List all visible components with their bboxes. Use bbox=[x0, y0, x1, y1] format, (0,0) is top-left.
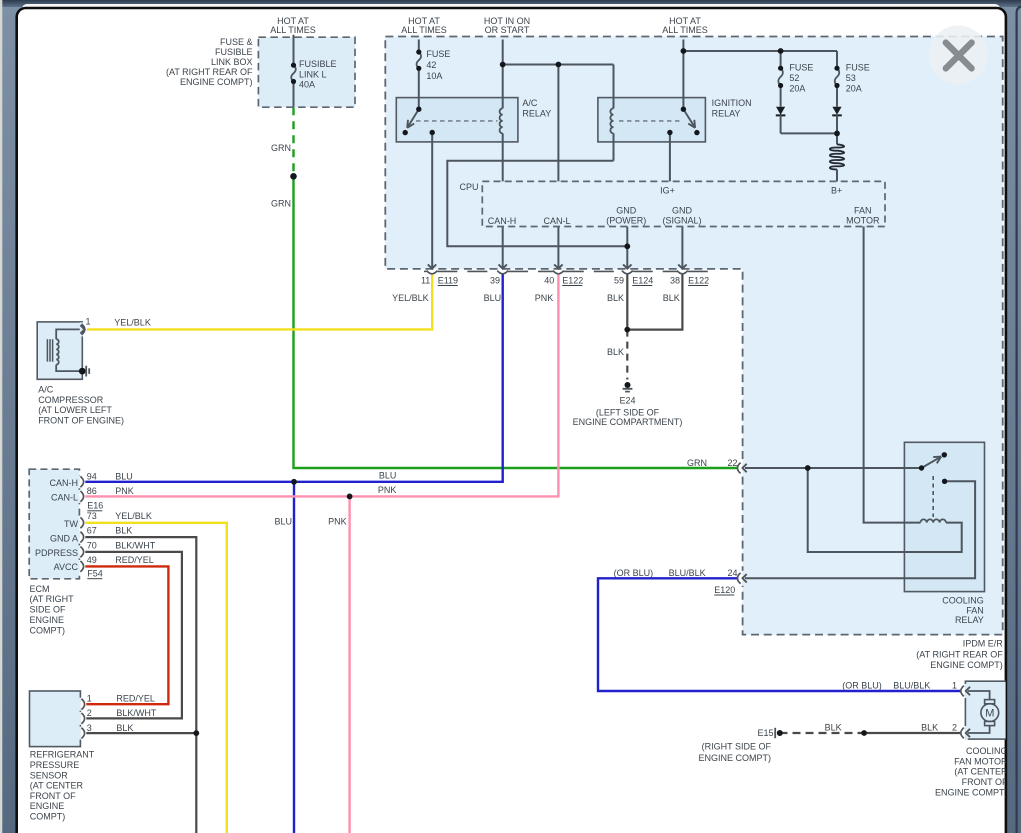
svg-text:10A: 10A bbox=[426, 71, 442, 81]
svg-text:CPU: CPU bbox=[459, 182, 478, 192]
svg-text:49: 49 bbox=[87, 555, 97, 565]
svg-text:(POWER): (POWER) bbox=[606, 216, 646, 226]
svg-text:40: 40 bbox=[544, 275, 554, 285]
svg-text:M: M bbox=[985, 708, 994, 720]
svg-text:22: 22 bbox=[727, 458, 737, 468]
svg-text:3: 3 bbox=[87, 723, 92, 733]
svg-text:COOLING: COOLING bbox=[942, 596, 984, 606]
svg-text:IGNITION: IGNITION bbox=[712, 98, 752, 108]
svg-text:BLK: BLK bbox=[115, 526, 132, 536]
svg-text:40A: 40A bbox=[299, 80, 315, 90]
svg-text:E16: E16 bbox=[87, 501, 103, 511]
svg-text:BLK: BLK bbox=[116, 723, 133, 733]
svg-text:GND A: GND A bbox=[50, 534, 78, 544]
svg-text:PDPRESS: PDPRESS bbox=[35, 548, 78, 558]
svg-text:RELAY: RELAY bbox=[955, 615, 984, 625]
svg-text:GND: GND bbox=[616, 205, 637, 215]
svg-text:E15: E15 bbox=[757, 728, 773, 738]
svg-text:IG+: IG+ bbox=[660, 185, 675, 195]
svg-text:PNK: PNK bbox=[535, 293, 554, 303]
svg-text:GRN: GRN bbox=[271, 143, 291, 153]
svg-text:1: 1 bbox=[87, 694, 92, 704]
svg-text:CAN-L: CAN-L bbox=[51, 493, 78, 503]
svg-text:MOTOR: MOTOR bbox=[846, 216, 880, 226]
svg-text:SENSOR: SENSOR bbox=[30, 770, 69, 780]
svg-text:E119: E119 bbox=[438, 275, 458, 285]
svg-text:SIDE OF: SIDE OF bbox=[30, 605, 67, 615]
svg-text:1: 1 bbox=[85, 316, 90, 326]
svg-text:20A: 20A bbox=[846, 83, 862, 93]
svg-text:ENGINE COMPT): ENGINE COMPT) bbox=[935, 788, 1008, 798]
svg-text:E120: E120 bbox=[714, 585, 735, 595]
svg-text:AVCC: AVCC bbox=[54, 562, 79, 572]
svg-text:GND: GND bbox=[672, 205, 693, 215]
svg-text:PNK: PNK bbox=[328, 516, 347, 526]
svg-text:FUSIBLE: FUSIBLE bbox=[215, 47, 253, 57]
svg-text:52: 52 bbox=[789, 73, 799, 83]
svg-text:IPDM E/R: IPDM E/R bbox=[963, 639, 1004, 649]
svg-text:2: 2 bbox=[87, 708, 92, 718]
svg-text:(RIGHT SIDE OF: (RIGHT SIDE OF bbox=[702, 741, 772, 751]
svg-text:OR START: OR START bbox=[485, 25, 530, 35]
svg-text:BLK: BLK bbox=[663, 293, 680, 303]
svg-text:53: 53 bbox=[846, 73, 856, 83]
svg-text:(AT LOWER LEFT: (AT LOWER LEFT bbox=[38, 405, 112, 415]
svg-text:20A: 20A bbox=[789, 83, 805, 93]
svg-text:A/C: A/C bbox=[522, 98, 538, 108]
svg-text:(SIGNAL): (SIGNAL) bbox=[662, 216, 701, 226]
svg-text:ALL TIMES: ALL TIMES bbox=[401, 25, 447, 35]
svg-text:FRONT OF: FRONT OF bbox=[30, 791, 76, 801]
svg-text:FRONT OF ENGINE): FRONT OF ENGINE) bbox=[38, 416, 124, 426]
svg-text:A/C: A/C bbox=[38, 385, 54, 395]
svg-text:ENGINE COMPT): ENGINE COMPT) bbox=[180, 77, 253, 87]
svg-text:TW: TW bbox=[64, 519, 78, 529]
svg-text:(OR BLU): (OR BLU) bbox=[614, 568, 654, 578]
svg-text:FUSE: FUSE bbox=[846, 63, 870, 73]
svg-text:59: 59 bbox=[614, 275, 624, 285]
svg-text:E122: E122 bbox=[688, 275, 709, 285]
svg-text:FUSE: FUSE bbox=[789, 63, 813, 73]
svg-text:2: 2 bbox=[952, 723, 957, 733]
svg-text:COMPT): COMPT) bbox=[30, 812, 66, 822]
svg-text:(AT RIGHT REAR OF: (AT RIGHT REAR OF bbox=[916, 649, 1003, 659]
svg-text:ENGINE COMPT): ENGINE COMPT) bbox=[930, 660, 1003, 670]
svg-text:FUSE &: FUSE & bbox=[220, 37, 253, 47]
svg-text:REFRIGERANT: REFRIGERANT bbox=[30, 750, 95, 760]
svg-text:GRN: GRN bbox=[271, 198, 291, 208]
svg-text:E24: E24 bbox=[619, 396, 635, 406]
svg-text:67: 67 bbox=[87, 526, 97, 536]
svg-text:BLU: BLU bbox=[379, 471, 397, 481]
svg-text:COMPT): COMPT) bbox=[30, 625, 66, 635]
svg-text:CAN-L: CAN-L bbox=[543, 216, 570, 226]
svg-text:BLK/WHT: BLK/WHT bbox=[116, 708, 157, 718]
svg-text:CAN-H: CAN-H bbox=[50, 478, 79, 488]
svg-text:BLU: BLU bbox=[274, 516, 292, 526]
svg-text:ENGINE COMPARTMENT): ENGINE COMPARTMENT) bbox=[573, 417, 683, 427]
svg-text:BLU/BLK: BLU/BLK bbox=[893, 681, 930, 691]
svg-text:LINK BOX: LINK BOX bbox=[211, 57, 253, 67]
svg-text:PNK: PNK bbox=[378, 485, 397, 495]
svg-text:LINK L: LINK L bbox=[299, 69, 327, 79]
svg-text:BLU/BLK: BLU/BLK bbox=[669, 568, 706, 578]
svg-text:42: 42 bbox=[426, 60, 436, 70]
svg-text:GRN: GRN bbox=[687, 458, 707, 468]
svg-text:70: 70 bbox=[87, 540, 97, 550]
svg-text:RELAY: RELAY bbox=[522, 109, 551, 119]
svg-text:ECM: ECM bbox=[30, 584, 50, 594]
svg-text:FAN MOTOR: FAN MOTOR bbox=[954, 756, 1008, 766]
svg-text:24: 24 bbox=[727, 568, 737, 578]
svg-text:11: 11 bbox=[421, 275, 430, 285]
svg-text:39: 39 bbox=[490, 275, 500, 285]
svg-text:BLU: BLU bbox=[484, 293, 502, 303]
svg-text:ENGINE COMPT): ENGINE COMPT) bbox=[698, 753, 771, 763]
svg-text:RED/YEL: RED/YEL bbox=[115, 555, 154, 565]
svg-text:BLK: BLK bbox=[825, 723, 842, 733]
svg-text:YEL/BLK: YEL/BLK bbox=[115, 511, 152, 521]
svg-text:FAN: FAN bbox=[854, 205, 872, 215]
svg-text:COMPRESSOR: COMPRESSOR bbox=[38, 395, 104, 405]
svg-text:(AT RIGHT REAR OF: (AT RIGHT REAR OF bbox=[166, 67, 253, 77]
svg-text:FRONT OF: FRONT OF bbox=[962, 777, 1008, 787]
svg-text:BLK: BLK bbox=[607, 347, 624, 357]
svg-text:86: 86 bbox=[87, 486, 97, 496]
svg-text:FUSIBLE: FUSIBLE bbox=[299, 59, 337, 69]
svg-text:ENGINE: ENGINE bbox=[30, 615, 65, 625]
svg-text:YEL/BLK: YEL/BLK bbox=[392, 293, 429, 303]
svg-text:(AT CENTER: (AT CENTER bbox=[30, 781, 84, 791]
svg-text:(LEFT SIDE OF: (LEFT SIDE OF bbox=[596, 407, 660, 417]
svg-text:(AT CENTER: (AT CENTER bbox=[954, 767, 1008, 777]
svg-text:B+: B+ bbox=[831, 185, 842, 195]
svg-text:(AT RIGHT: (AT RIGHT bbox=[30, 594, 75, 604]
svg-text:ALL TIMES: ALL TIMES bbox=[662, 25, 708, 35]
svg-text:E124: E124 bbox=[632, 275, 653, 285]
svg-text:BLK: BLK bbox=[921, 723, 938, 733]
svg-text:FAN: FAN bbox=[966, 605, 984, 615]
svg-text:BLK: BLK bbox=[607, 293, 624, 303]
svg-text:YEL/BLK: YEL/BLK bbox=[114, 317, 151, 327]
svg-text:(OR BLU): (OR BLU) bbox=[842, 681, 882, 691]
svg-text:ALL TIMES: ALL TIMES bbox=[270, 25, 316, 35]
svg-text:ENGINE: ENGINE bbox=[30, 801, 65, 811]
svg-text:RELAY: RELAY bbox=[712, 109, 741, 119]
svg-text:RED/YEL: RED/YEL bbox=[116, 694, 155, 704]
svg-text:73: 73 bbox=[87, 511, 97, 521]
svg-text:BLU: BLU bbox=[115, 472, 133, 482]
svg-text:CAN-H: CAN-H bbox=[488, 216, 517, 226]
svg-text:FUSE: FUSE bbox=[426, 49, 450, 59]
svg-text:BLK/WHT: BLK/WHT bbox=[115, 540, 156, 550]
svg-text:F54: F54 bbox=[87, 569, 103, 579]
svg-text:PRESSURE: PRESSURE bbox=[30, 760, 80, 770]
svg-text:1: 1 bbox=[952, 681, 957, 691]
svg-text:PNK: PNK bbox=[115, 486, 134, 496]
svg-text:94: 94 bbox=[87, 472, 97, 482]
svg-text:38: 38 bbox=[670, 275, 680, 285]
svg-text:COOLING: COOLING bbox=[966, 746, 1008, 756]
svg-text:E122: E122 bbox=[562, 275, 583, 285]
